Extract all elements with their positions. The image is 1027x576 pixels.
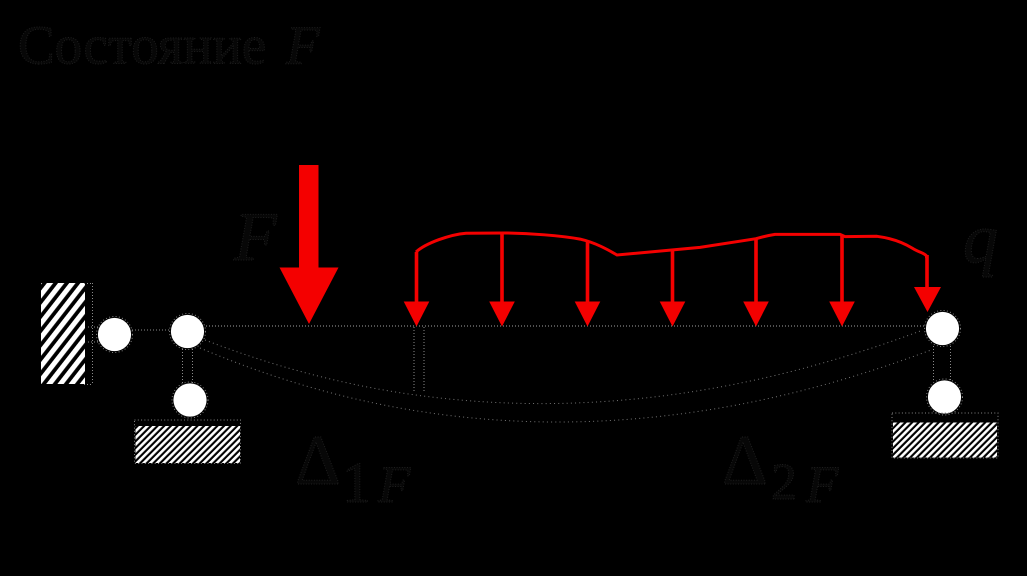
ground block right	[892, 413, 998, 458]
svg-text:Δ: Δ	[722, 422, 768, 500]
node link circle1-circle2 dotted	[132, 329, 169, 331]
beam axis dotted	[206, 325, 925, 327]
link bar left support	[183, 349, 193, 383]
roller circle right base	[927, 379, 963, 415]
big force arrow F	[280, 165, 339, 324]
roller circle 3 (left base)	[172, 382, 208, 418]
q arrow 6	[829, 235, 855, 327]
svg-text:Δ: Δ	[295, 422, 341, 500]
delta1 measurement lines	[414, 327, 424, 393]
wall face dotted line	[92, 283, 94, 385]
wall hatch (left fixed support)	[41, 283, 85, 384]
svg-text:2: 2	[771, 454, 797, 511]
svg-text:F: F	[377, 456, 411, 514]
deflection curve upper	[205, 330, 923, 404]
q arrow 5	[743, 238, 769, 327]
svg-text:F: F	[233, 199, 278, 276]
svg-text:q: q	[963, 201, 998, 278]
svg-text:F: F	[805, 456, 839, 514]
q arrow 7 (onto right support)	[914, 255, 941, 312]
q arrow 2	[489, 233, 515, 327]
deflection curve lower	[200, 348, 931, 422]
svg-text:Состояние: Состояние	[18, 15, 266, 76]
q arrow 3	[575, 241, 601, 327]
svg-text:F: F	[285, 15, 321, 76]
svg-text:1: 1	[342, 450, 371, 515]
q arrow 4	[660, 250, 686, 327]
right support pin circle	[925, 311, 961, 347]
pin circle 2 (left support, beam end)	[170, 314, 206, 350]
link bar right support	[934, 346, 951, 380]
q arrow 1	[404, 252, 430, 327]
distributed load q curve	[416, 233, 927, 258]
ground block left	[135, 420, 241, 464]
bracket wall-roller	[88, 327, 98, 342]
horizontal roller circle 1	[97, 317, 133, 353]
